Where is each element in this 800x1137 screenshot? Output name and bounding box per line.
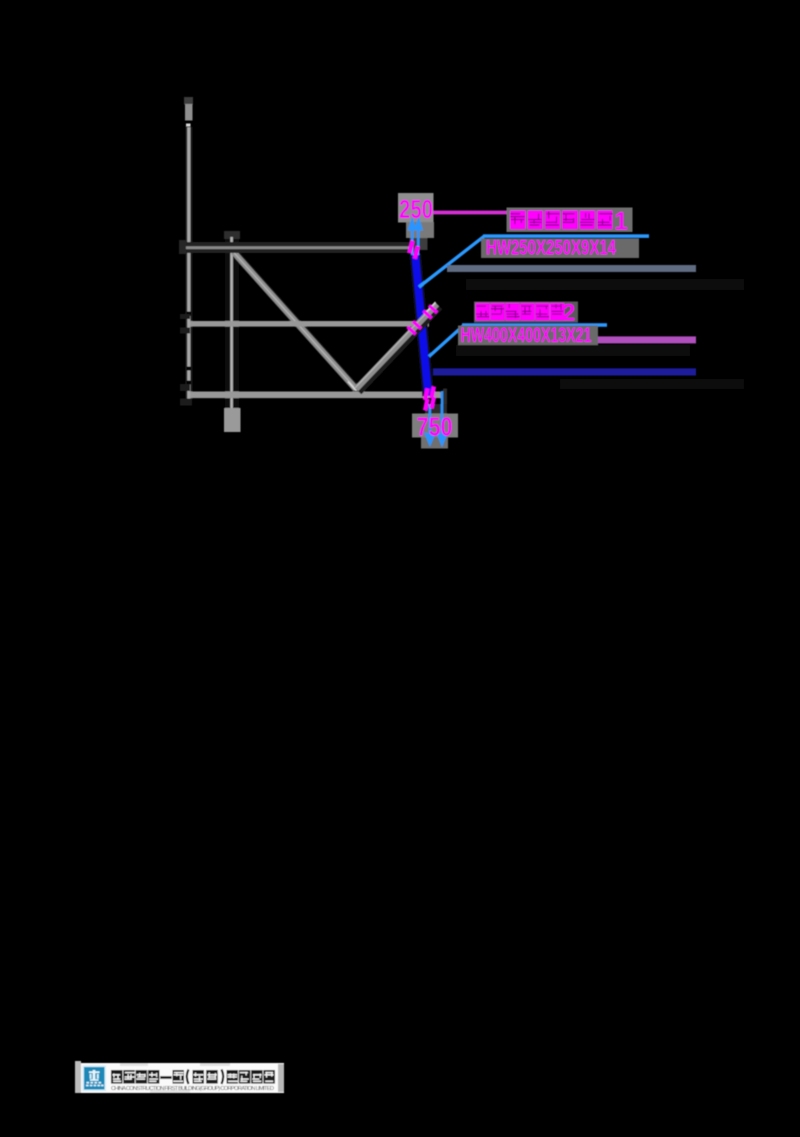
faint dark text row B <box>456 345 690 356</box>
dark step under 250 arrows <box>410 238 428 250</box>
middle chord <box>190 321 429 327</box>
break ticks bottom group (on post bottom) <box>423 388 430 401</box>
column C1 splice white notch <box>186 124 191 127</box>
V tip white outline left <box>348 382 356 391</box>
diagonal D1 highlight <box>233 251 356 388</box>
halo step under 750 arrows <box>421 438 448 449</box>
halo box behind HW250 text <box>481 239 639 259</box>
logo strip left grey edge <box>75 1061 81 1093</box>
faint dark text row A <box>466 279 744 290</box>
label 1 chinese text 提升加固桁架1 (drawn) <box>510 211 526 230</box>
dimension arrow stems top <box>411 227 414 255</box>
middle chord left dark cap lower <box>180 328 190 334</box>
leader 1 horizontal underline <box>483 234 649 238</box>
leader 1 diagonal <box>419 236 484 287</box>
column C1 break tick 3 <box>187 381 191 385</box>
dimension stem bottom-right <box>441 391 444 440</box>
column C1 shaft <box>187 127 190 399</box>
svg-text:HW400X400X13X21: HW400X400X13X21 <box>461 324 592 347</box>
halo box behind 250 <box>398 193 434 223</box>
column C1 dark sheath <box>185 127 192 399</box>
svg-text:750: 750 <box>417 412 453 442</box>
halo tail under 21 <box>575 346 592 352</box>
company logo white strip <box>78 1063 284 1093</box>
column C1 break tick 2 <box>187 367 191 371</box>
violet line right <box>592 336 696 343</box>
bottom chord left dark cap upper <box>180 384 190 391</box>
svg-text:250: 250 <box>399 194 433 224</box>
bottom chord left dark cap lower <box>180 399 192 406</box>
dimension arrowhead top-left (up) <box>408 217 417 231</box>
column C2 top blob <box>224 231 240 239</box>
column C2 dark halo <box>225 239 239 408</box>
logo blue square <box>84 1067 105 1090</box>
svg-text:CHINA CONSTRUCTION FIRST BUILD: CHINA CONSTRUCTION FIRST BUILDING(GROUP)… <box>111 1086 274 1092</box>
dimension arrowhead bottom-left (down) <box>424 433 436 448</box>
logo blue square glow <box>83 1066 107 1092</box>
blue vertical member (truss post) <box>415 254 428 396</box>
leader 2 diagonal <box>429 325 464 357</box>
column C1 break tick 1 <box>187 312 191 317</box>
dimension stem bottom-left <box>429 404 432 440</box>
break ticks middle group (on D2 crossing) <box>406 325 417 335</box>
halo box behind HW400 text <box>458 326 598 346</box>
logo emblem white marks <box>93 1070 96 1081</box>
slate-grey beam line right <box>447 265 696 272</box>
bottom chord right end dark bar <box>443 389 447 414</box>
dimension arrowhead bottom-right (down) <box>436 433 447 448</box>
column C2 shaft <box>230 237 233 408</box>
dark band above 750 <box>425 404 447 414</box>
break ticks top pair (on post top) <box>407 240 414 254</box>
diagonal D2 white sliver <box>424 302 436 314</box>
label 2 chinese text 提升加固桁架2 (drawn) <box>476 303 490 321</box>
bottom chord <box>190 392 440 399</box>
column C2 base block <box>224 408 241 432</box>
halo box behind 750 <box>412 414 458 438</box>
logo strip right grey edge <box>278 1064 284 1092</box>
halo box behind label 2 chinese <box>474 302 578 323</box>
leader 2 horizontal underline <box>462 323 607 327</box>
navy beam line right <box>433 368 696 375</box>
middle chord left dark cap upper <box>180 314 190 319</box>
diagonal D2 highlight <box>355 303 436 388</box>
column C1 top cap dark <box>184 97 193 105</box>
logo strip top mottle 2 <box>200 1063 230 1066</box>
dimension arrowhead top-right (up) <box>414 217 423 231</box>
svg-text:2: 2 <box>562 300 575 327</box>
halo box behind label 1 chinese <box>507 208 633 233</box>
V tip white outline right <box>356 382 365 391</box>
magenta leader line from 250 <box>433 211 509 215</box>
logo strip top mottle 1 <box>120 1063 148 1066</box>
column C1 top cap <box>185 104 193 121</box>
logo chinese company name (drawn) <box>111 1070 123 1084</box>
bottom chord right arrow tip <box>440 392 447 399</box>
top chord halo band <box>185 242 415 253</box>
diagonal D2 shadow <box>359 307 440 392</box>
diagonal D1 <box>234 252 357 389</box>
halo step under 250 arrows <box>406 222 434 238</box>
faint dark text row C <box>560 379 744 389</box>
svg-text:1: 1 <box>614 208 628 236</box>
top chord left end dark cap <box>179 240 186 254</box>
diagonal D2 <box>356 304 437 389</box>
logo strip bottom mottle <box>150 1090 190 1093</box>
logo tiny white text rows <box>87 1082 90 1084</box>
diagonal D1 shadow <box>236 255 359 392</box>
svg-text:HW250X250X9X14: HW250X250X9X14 <box>486 237 616 260</box>
blue vertical member halo <box>415 254 428 396</box>
top chord line <box>185 246 415 249</box>
